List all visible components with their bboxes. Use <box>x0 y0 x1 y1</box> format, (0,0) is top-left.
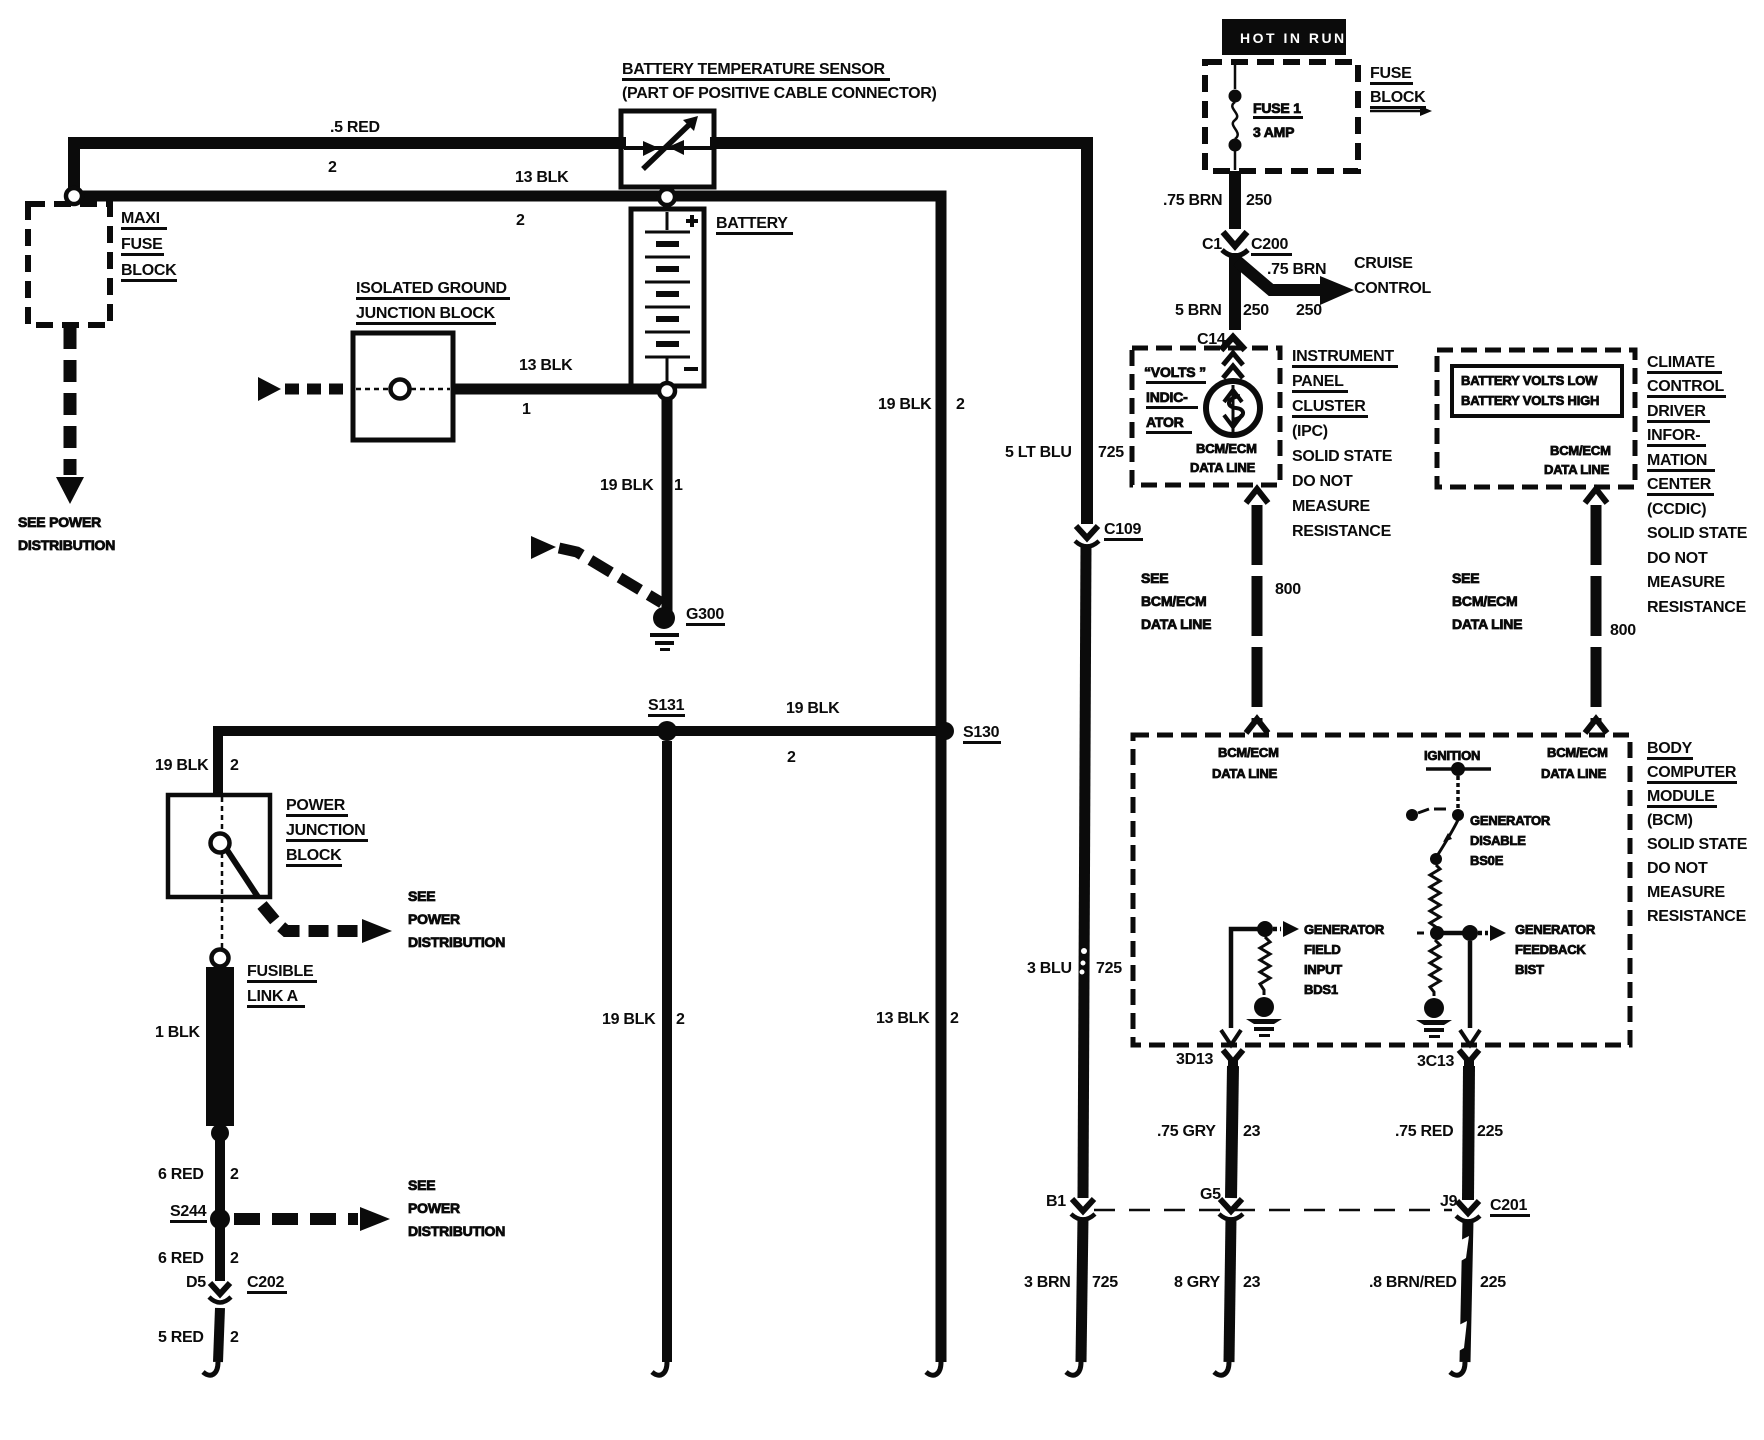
svg-text:19 BLK: 19 BLK <box>786 700 840 717</box>
svg-text:3 BRN: 3 BRN <box>1024 1274 1071 1291</box>
svg-text:CONTROL: CONTROL <box>1354 280 1432 297</box>
wire battery neg to G300 <box>662 392 673 611</box>
svg-text:(PART OF POSITIVE CABLE CONNEC: (PART OF POSITIVE CABLE CONNECTOR) <box>622 85 937 102</box>
svg-text:SOLID STATE: SOLID STATE <box>1647 525 1748 542</box>
svg-text:19 BLK: 19 BLK <box>602 1011 656 1028</box>
svg-text:SEE: SEE <box>408 888 435 904</box>
svg-text:2: 2 <box>787 749 796 766</box>
svg-text:CLIMATE: CLIMATE <box>1647 354 1715 371</box>
wire J9 down to bottom (striped) <box>1450 1220 1469 1375</box>
svg-text:BCM/ECM: BCM/ECM <box>1452 593 1517 609</box>
svg-text:2: 2 <box>328 159 337 176</box>
label 3 BRN 725 <box>1024 1274 1118 1291</box>
svg-text:BLOCK: BLOCK <box>121 262 177 279</box>
svg-text:13 BLK: 13 BLK <box>519 357 573 374</box>
svg-text:725: 725 <box>1092 1274 1118 1291</box>
label SEE BCM/ECM DATA LINE (left) <box>1141 570 1211 632</box>
label BCM/ECM DATA LINE (bcm right) <box>1541 745 1608 781</box>
svg-text:SEE: SEE <box>408 1177 435 1193</box>
label C200 <box>1251 236 1292 256</box>
wire S131 down to bottom <box>652 741 667 1375</box>
splice S244 <box>210 1209 230 1229</box>
svg-text:G300: G300 <box>686 606 724 623</box>
wire G5 down to bottom <box>1214 1218 1231 1375</box>
svg-text:FUSE 1: FUSE 1 <box>1253 100 1301 116</box>
svg-text:FUSE: FUSE <box>1370 65 1412 82</box>
svg-text:2: 2 <box>516 212 525 229</box>
svg-text:S244: S244 <box>170 1203 207 1220</box>
svg-text:ATOR: ATOR <box>1146 414 1184 430</box>
fuse block (dashed) <box>1205 62 1358 171</box>
label D5 <box>186 1274 206 1291</box>
label .75 BRN 250 <box>1163 192 1272 209</box>
label VOLTS INDICATOR <box>1144 364 1206 434</box>
wire feedback down to 3C13 <box>1460 941 1480 1045</box>
dashed arrow power distribution (junction block) <box>262 905 392 943</box>
label INSTRUMENT PANEL CLUSTER (IPC) <box>1292 348 1398 540</box>
svg-text:C1: C1 <box>1202 236 1222 253</box>
svg-text:DISABLE: DISABLE <box>1470 833 1526 848</box>
label 800 (right) <box>1610 622 1636 639</box>
label 5 BRN 250 250 <box>1175 302 1322 319</box>
svg-text:“VOLTS ”: “VOLTS ” <box>1144 364 1206 380</box>
svg-text:5 LT BLU: 5 LT BLU <box>1005 444 1072 461</box>
svg-text:CENTER: CENTER <box>1647 476 1712 493</box>
svg-text:BLOCK: BLOCK <box>286 847 342 864</box>
wire 6 RED down <box>215 1133 225 1281</box>
label 2 (13 BLK) <box>516 212 525 229</box>
svg-text:ISOLATED GROUND: ISOLATED GROUND <box>356 280 507 297</box>
volts indicator coil <box>1206 381 1260 435</box>
label BODY COMPUTER MODULE (BCM) <box>1647 740 1748 925</box>
label 800 (left) <box>1275 581 1301 598</box>
fusible link A (thick bar) <box>206 967 234 1126</box>
svg-text:BS0E: BS0E <box>1470 853 1504 868</box>
node below fusible link <box>211 1124 229 1142</box>
svg-text:IGNITION: IGNITION <box>1424 748 1480 763</box>
svg-text:SEE POWER: SEE POWER <box>18 514 101 530</box>
svg-text:3 BLU: 3 BLU <box>1027 960 1072 977</box>
label C201 <box>1490 1197 1530 1217</box>
svg-text:.75 RED: .75 RED <box>1395 1123 1453 1140</box>
svg-text:6 RED: 6 RED <box>158 1250 204 1267</box>
connector 3D13 <box>1176 1050 1243 1068</box>
arrow generator feedback <box>1478 925 1506 941</box>
label 13 BLK 2 (right vertical lower) <box>876 1010 959 1027</box>
label 19 BLK 2 (S131 lower wire) <box>602 1011 685 1028</box>
label 19 BLK 2 (left of power junction block) <box>155 757 239 774</box>
connector B1 <box>1046 1193 1095 1220</box>
node feedback <box>1462 925 1478 941</box>
svg-text:INFOR-: INFOR- <box>1647 427 1700 444</box>
connector C14 <box>1197 331 1245 350</box>
label BCM/ECM DATA LINE (bcm left) <box>1212 745 1279 781</box>
svg-text:DRIVER: DRIVER <box>1647 403 1706 420</box>
label GENERATOR FIELD INPUT BDS1 <box>1304 922 1385 997</box>
battery temperature sensor box <box>621 111 714 187</box>
node battery positive <box>659 189 675 205</box>
svg-text:DISTRIBUTION: DISTRIBUTION <box>408 1223 505 1239</box>
svg-text:.75 BRN: .75 BRN <box>1163 192 1222 209</box>
connector C109 <box>1075 526 1099 547</box>
label 19 BLK 2 (right vertical upper) <box>878 396 965 413</box>
svg-text:2: 2 <box>230 757 239 774</box>
svg-text:800: 800 <box>1610 622 1636 639</box>
node generator field <box>1257 921 1273 937</box>
node battery negative <box>659 383 675 399</box>
svg-text:MATION: MATION <box>1647 452 1707 469</box>
label FUSIBLE LINK A <box>247 963 317 1008</box>
label S244 <box>170 1203 207 1223</box>
connector C202 (D5) <box>209 1283 231 1303</box>
left branch corner wire <box>1221 929 1262 1045</box>
node at maxi fuse block <box>66 188 82 204</box>
label 5 LT BLU 725 <box>1005 444 1124 461</box>
svg-text:BIST: BIST <box>1515 962 1544 977</box>
svg-text:S130: S130 <box>963 724 1000 741</box>
svg-text:.8 BRN/RED: .8 BRN/RED <box>1369 1274 1457 1291</box>
svg-text:800: 800 <box>1275 581 1301 598</box>
svg-text:FUSE: FUSE <box>121 236 163 253</box>
connector 3C13 <box>1417 1050 1479 1070</box>
svg-text:(IPC): (IPC) <box>1292 423 1328 440</box>
svg-text:BATTERY VOLTS LOW: BATTERY VOLTS LOW <box>1461 373 1598 388</box>
dashed arrow into junction block <box>258 377 350 401</box>
svg-text:DATA LINE: DATA LINE <box>1541 766 1607 781</box>
svg-text:BDS1: BDS1 <box>1304 982 1338 997</box>
svg-text:.75 BRN: .75 BRN <box>1267 261 1326 278</box>
wire 3D13 down to G5 <box>1231 1066 1233 1198</box>
svg-text:BLOCK: BLOCK <box>1370 89 1426 106</box>
label S131 <box>648 697 685 717</box>
svg-text:SOLID STATE: SOLID STATE <box>1292 448 1393 465</box>
label S130 <box>963 724 1001 744</box>
svg-text:2: 2 <box>230 1166 239 1183</box>
svg-text:19 BLK: 19 BLK <box>155 757 209 774</box>
splice S130 <box>936 722 954 740</box>
svg-text:INSTRUMENT: INSTRUMENT <box>1292 348 1394 365</box>
svg-text:COMPUTER: COMPUTER <box>1647 764 1737 781</box>
label SEE POWER DISTRIBUTION (S244) <box>408 1177 505 1239</box>
svg-text:725: 725 <box>1098 444 1124 461</box>
svg-text:13 BLK: 13 BLK <box>515 169 569 186</box>
node junction mid <box>1417 926 1444 940</box>
label MAXI FUSE BLOCK <box>121 210 177 282</box>
label ISOLATED GROUND JUNCTION BLOCK <box>356 280 510 325</box>
svg-text:BCM/ECM: BCM/ECM <box>1550 443 1611 458</box>
svg-text:INDIC-: INDIC- <box>1146 389 1188 405</box>
svg-text:MODULE: MODULE <box>1647 788 1715 805</box>
wire CCDIC to BCM (dashed) <box>1585 489 1607 733</box>
label 13 BLK <box>519 357 573 374</box>
svg-text:GENERATOR: GENERATOR <box>1470 813 1551 828</box>
svg-text:DATA LINE: DATA LINE <box>1212 766 1278 781</box>
svg-text:250: 250 <box>1243 302 1269 319</box>
svg-text:.5 RED: .5 RED <box>330 119 380 136</box>
svg-text:.75 GRY: .75 GRY <box>1157 1123 1216 1140</box>
svg-text:BCM/ECM: BCM/ECM <box>1141 593 1206 609</box>
svg-text:INPUT: INPUT <box>1304 962 1342 977</box>
wire C200 to C14 <box>1229 253 1241 330</box>
svg-text:1: 1 <box>522 401 531 418</box>
svg-text:3C13: 3C13 <box>1417 1053 1454 1070</box>
svg-text:SOLID STATE: SOLID STATE <box>1647 836 1748 853</box>
label 6 RED 2 (below S244) <box>158 1250 239 1267</box>
chevrons wire into IPC <box>1223 353 1243 378</box>
svg-text:C200: C200 <box>1251 236 1288 253</box>
label CLIMATE CONTROL DRIVER INFORMATION CENTER <box>1647 354 1748 616</box>
svg-text:23: 23 <box>1243 1274 1261 1291</box>
svg-text:C201: C201 <box>1490 1197 1527 1214</box>
HOT IN RUN banner <box>1222 19 1347 55</box>
connector dots 3 BLU <box>1080 948 1088 975</box>
svg-text:RESISTANCE: RESISTANCE <box>1647 599 1747 616</box>
battery B1 <box>631 209 704 386</box>
svg-text:B1: B1 <box>1046 1193 1066 1210</box>
wire B1 down to bottom <box>1066 1218 1083 1375</box>
svg-text:DO NOT: DO NOT <box>1292 473 1353 490</box>
svg-text:C109: C109 <box>1104 521 1141 538</box>
label 3 BLU 725 <box>1027 960 1122 977</box>
svg-text:2: 2 <box>950 1010 959 1027</box>
svg-text:2: 2 <box>956 396 965 413</box>
svg-text:SEE: SEE <box>1452 570 1479 586</box>
svg-text:6 RED: 6 RED <box>158 1166 204 1183</box>
svg-text:MEASURE: MEASURE <box>1292 498 1371 515</box>
svg-text:DISTRIBUTION: DISTRIBUTION <box>18 537 115 553</box>
label POWER JUNCTION BLOCK <box>286 797 368 867</box>
svg-text:RESISTANCE: RESISTANCE <box>1292 523 1392 540</box>
svg-text:19 BLK: 19 BLK <box>600 477 654 494</box>
label FUSE 1 / 3 AMP <box>1253 100 1303 140</box>
svg-text:19 BLK: 19 BLK <box>878 396 932 413</box>
wire C109 down to B1 <box>1083 545 1086 1198</box>
svg-text:HOT IN RUN: HOT IN RUN <box>1240 30 1347 46</box>
label 19 BLK 1 <box>600 477 683 494</box>
arrow generator field <box>1273 921 1299 937</box>
svg-text:G5: G5 <box>1200 1186 1221 1203</box>
label .8 BRN/RED 225 <box>1369 1274 1506 1291</box>
svg-text:SEE: SEE <box>1141 570 1168 586</box>
instrument panel cluster box (dashed) <box>1132 348 1280 485</box>
label 6 RED 2 <box>158 1166 239 1183</box>
label 1 <box>522 401 531 418</box>
body computer module box (dashed) <box>1133 735 1630 1045</box>
wire 13 BLK 1 (junction block to battery neg) <box>453 384 667 395</box>
svg-text:S131: S131 <box>648 697 685 714</box>
svg-text:DATA LINE: DATA LINE <box>1141 616 1211 632</box>
svg-text:LINK A: LINK A <box>247 988 299 1005</box>
svg-text:CRUISE: CRUISE <box>1354 255 1413 272</box>
wire fuse to C200 <box>1229 171 1241 229</box>
svg-text:1: 1 <box>674 477 683 494</box>
svg-text:BATTERY: BATTERY <box>716 215 788 232</box>
label FUSE BLOCK <box>1370 65 1432 116</box>
svg-text:23: 23 <box>1243 1123 1261 1140</box>
svg-text:BCM/ECM: BCM/ECM <box>1547 745 1608 760</box>
svg-text:BCM/ECM: BCM/ECM <box>1218 745 1279 760</box>
svg-text:2: 2 <box>230 1329 239 1346</box>
isolated ground junction block <box>353 333 453 440</box>
svg-text:C202: C202 <box>247 1274 284 1291</box>
label G300 <box>686 606 725 626</box>
ground (field) <box>1246 997 1282 1037</box>
svg-text:FUSIBLE: FUSIBLE <box>247 963 314 980</box>
resistor (disable) <box>1430 865 1440 930</box>
ccdic box (dashed) <box>1437 350 1635 487</box>
label C109 <box>1104 521 1143 541</box>
svg-text:MEASURE: MEASURE <box>1647 884 1726 901</box>
label SEE POWER DISTRIBUTION (junction block) <box>408 888 505 950</box>
svg-text:BODY: BODY <box>1647 740 1693 757</box>
label GENERATOR DISABLE BS0E <box>1470 813 1551 868</box>
svg-text:GENERATOR: GENERATOR <box>1304 922 1385 937</box>
wire 3C13 down to J9 <box>1468 1066 1469 1200</box>
maxi fuse block (dashed) <box>28 204 110 325</box>
svg-text:CLUSTER: CLUSTER <box>1292 398 1366 415</box>
ignition switch <box>1406 776 1464 865</box>
svg-text:CONTROL: CONTROL <box>1647 378 1725 395</box>
svg-text:DO NOT: DO NOT <box>1647 860 1708 877</box>
resistor (field) <box>1260 937 1270 995</box>
svg-text:DATA LINE: DATA LINE <box>1544 462 1610 477</box>
wire IPC to BCM (dashed) <box>1246 489 1268 733</box>
svg-text:J9: J9 <box>1440 1193 1458 1210</box>
label GENERATOR FEEDBACK BIST <box>1515 922 1596 977</box>
label SEE POWER DISTRIBUTION (maxi) <box>18 514 115 553</box>
label 1 BLK <box>155 1024 200 1041</box>
svg-text:MEASURE: MEASURE <box>1647 574 1726 591</box>
label 19 BLK 2 (S131-S130) <box>786 700 840 766</box>
svg-text:MAXI: MAXI <box>121 210 160 227</box>
power junction block <box>168 795 270 951</box>
svg-text:250: 250 <box>1246 192 1272 209</box>
wire S131 horizontal <box>218 731 936 797</box>
LEFT-HALF <box>18 61 1087 1375</box>
svg-text:BATTERY VOLTS HIGH: BATTERY VOLTS HIGH <box>1461 393 1599 408</box>
svg-text:13 BLK: 13 BLK <box>876 1010 930 1027</box>
label C202 <box>247 1274 287 1294</box>
label 8 GRY 23 <box>1174 1274 1261 1291</box>
label .75 BRN (cruise) <box>1267 261 1326 278</box>
battery volts low/high box <box>1452 366 1622 416</box>
splice S131 <box>657 721 677 741</box>
label 5 RED 2 <box>158 1329 239 1346</box>
svg-text:3 AMP: 3 AMP <box>1253 124 1294 140</box>
resistor (feedback lower) <box>1430 940 1440 996</box>
label SEE BCM/ECM DATA LINE (right) <box>1452 570 1522 632</box>
connector C200 (C1) <box>1222 232 1248 256</box>
dashed arrow to see power distribution <box>56 327 84 504</box>
svg-text:3D13: 3D13 <box>1176 1051 1213 1068</box>
connector G5 <box>1200 1186 1243 1220</box>
label 13 BLK <box>515 169 569 186</box>
svg-text:RESISTANCE: RESISTANCE <box>1647 908 1747 925</box>
svg-text:D5: D5 <box>186 1274 206 1291</box>
RIGHT-HALF <box>1005 19 1748 1375</box>
label CRUISE CONTROL <box>1354 255 1432 297</box>
label .75 RED 225 <box>1395 1123 1503 1140</box>
label C1 <box>1202 236 1222 253</box>
svg-text:POWER: POWER <box>408 1200 460 1216</box>
svg-text:BATTERY TEMPERATURE SENSOR: BATTERY TEMPERATURE SENSOR <box>622 61 885 78</box>
svg-text:2: 2 <box>230 1250 239 1267</box>
svg-text:250: 250 <box>1296 302 1322 319</box>
svg-text:2: 2 <box>676 1011 685 1028</box>
label BCM/ECM DATA LINE (ccdic) <box>1544 443 1611 477</box>
svg-text:1 BLK: 1 BLK <box>155 1024 200 1041</box>
ground (mid) <box>1416 998 1452 1038</box>
svg-text:725: 725 <box>1096 960 1122 977</box>
branch wire to cruise control <box>1237 261 1354 305</box>
svg-text:DATA LINE: DATA LINE <box>1190 460 1256 475</box>
svg-text:(CCDIC): (CCDIC) <box>1647 501 1706 518</box>
svg-text:FEEDBACK: FEEDBACK <box>1515 942 1586 957</box>
svg-text:DO NOT: DO NOT <box>1647 550 1708 567</box>
wire .5 RED (top horizontal, turns down at right) <box>74 143 1087 524</box>
node above fusible link <box>212 950 229 967</box>
svg-text:225: 225 <box>1477 1123 1503 1140</box>
label BATTERY TEMPERATURE SENSOR <box>622 61 937 102</box>
label 2 (circuit .5 RED) <box>328 159 337 176</box>
connector C201 at J9 <box>1440 1193 1480 1222</box>
dashed arrow power distribution (S244) <box>234 1207 390 1231</box>
ground G300 <box>650 607 679 651</box>
svg-text:BCM/ECM: BCM/ECM <box>1196 441 1257 456</box>
label BATTERY <box>716 215 793 235</box>
svg-text:8 GRY: 8 GRY <box>1174 1274 1221 1291</box>
label .5 RED <box>330 119 380 136</box>
svg-text:POWER: POWER <box>286 797 346 814</box>
svg-text:5 RED: 5 RED <box>158 1329 204 1346</box>
dashed arrow into G300 wire <box>531 536 662 603</box>
svg-text:POWER: POWER <box>408 911 460 927</box>
label IGNITION <box>1424 748 1491 776</box>
svg-text:(BCM): (BCM) <box>1647 812 1693 829</box>
dashed line C201 across B1 G5 J9 <box>1094 1209 1452 1212</box>
svg-text:PANEL: PANEL <box>1292 373 1344 390</box>
svg-text:225: 225 <box>1480 1274 1506 1291</box>
svg-text:DATA LINE: DATA LINE <box>1452 616 1522 632</box>
wire 13 BLK (second horizontal, turns down at right, runs to bottom) <box>80 196 941 1375</box>
fuse 1 symbol <box>1229 65 1242 170</box>
svg-text:JUNCTION: JUNCTION <box>286 822 365 839</box>
wire 5 RED to bottom <box>203 1308 220 1375</box>
svg-text:FIELD: FIELD <box>1304 942 1341 957</box>
svg-text:JUNCTION BLOCK: JUNCTION BLOCK <box>356 305 496 322</box>
svg-text:5 BRN: 5 BRN <box>1175 302 1222 319</box>
wire junction to feedback node <box>1437 931 1470 936</box>
svg-text:DISTRIBUTION: DISTRIBUTION <box>408 934 505 950</box>
label .75 GRY 23 <box>1157 1123 1261 1140</box>
label BCM/ECM DATA LINE (IPC) <box>1190 441 1257 475</box>
svg-text:GENERATOR: GENERATOR <box>1515 922 1596 937</box>
